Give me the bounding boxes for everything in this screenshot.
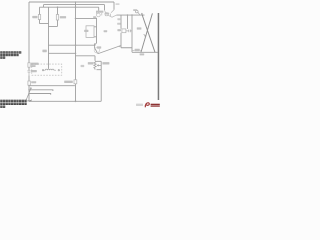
switch contacts <box>28 85 30 94</box>
switch arm arrow <box>26 88 32 102</box>
X top blob <box>141 13 142 14</box>
label VT1 VT2 text smudge <box>93 11 109 19</box>
wire branch y53.3 <box>49 52 76 54</box>
label RP left <box>88 62 94 64</box>
wire branch y46.6 <box>49 44 95 46</box>
wire switch stub c <box>29 94 51 95</box>
wire right step 2 <box>104 5 106 11</box>
leader line caption B <box>27 100 32 101</box>
resistor R1 <box>38 15 40 20</box>
wire y15 right <box>117 14 145 16</box>
caption text block B <box>0 100 26 108</box>
wire right step 3 <box>98 7 100 11</box>
capacitor comp2 on left rail <box>28 70 31 75</box>
label sw <box>42 50 46 53</box>
comp on x75 rail bottom <box>74 80 77 84</box>
label meter <box>133 9 137 11</box>
label near X bottom <box>135 49 140 51</box>
diode comp1 on left rail <box>28 63 30 67</box>
label C4 <box>84 30 107 33</box>
logo gray smudge <box>136 104 143 106</box>
label near X crossing <box>137 27 142 29</box>
logo red mark <box>145 103 160 108</box>
wire bus3 <box>40 6 99 8</box>
capacitor C7 ticks <box>126 30 132 33</box>
wire pot top link <box>94 56 96 61</box>
resistor R2 <box>56 15 58 21</box>
wire x132 <box>121 15 132 52</box>
wire right step 1 <box>113 2 115 10</box>
wire x121 <box>120 15 122 48</box>
wire branch y18.4 <box>76 17 97 19</box>
label right of dashed box <box>81 65 85 67</box>
label VD <box>117 29 121 31</box>
meter symbol top right <box>136 10 139 13</box>
wire x101.2 down <box>100 61 102 101</box>
zener box VD at x121 <box>122 29 126 33</box>
capacitor box C4 <box>86 26 94 38</box>
label R2 <box>60 16 66 18</box>
wire x96.5 <box>96 18 98 43</box>
label comp2 <box>31 70 37 72</box>
wire bus1 top <box>29 1 114 3</box>
wire R1 branch <box>40 7 49 23</box>
wire right rail dark <box>158 13 160 100</box>
wire y52.3 bottom right <box>132 51 158 53</box>
transistor big X VT4 <box>141 13 155 52</box>
arrowhead diagonal <box>119 46 121 48</box>
labels beside x121 <box>117 18 120 25</box>
potentiometer RP <box>94 61 101 70</box>
wire x48.5 rail <box>48 7 50 68</box>
label comp1 <box>31 63 39 67</box>
label above bus1 <box>116 3 120 5</box>
wire box stubs <box>94 27 97 37</box>
label RP right <box>102 62 109 64</box>
label under X leg <box>140 53 145 55</box>
label R1 <box>32 16 37 18</box>
wire switch stub a <box>29 85 75 87</box>
comp on left rail y81 <box>28 81 30 85</box>
emitter arrow mark <box>144 34 146 36</box>
wire left rail <box>28 2 30 101</box>
wire x75.5 rail <box>75 2 77 101</box>
transistor VT3 <box>95 43 98 54</box>
junction dots <box>57 1 133 102</box>
wire bus2 <box>44 5 105 8</box>
wire diagonal collector run <box>98 46 121 54</box>
label VT3 <box>97 46 101 48</box>
wire R2 branch <box>49 7 58 26</box>
wire x127.5 <box>127 15 129 29</box>
wire switch stub b <box>29 90 53 91</box>
caption text block A <box>0 51 21 59</box>
wire link x132 to X leg <box>132 50 141 52</box>
transistor VT1 VT2 cluster <box>97 10 117 17</box>
label comp x75 <box>64 81 73 83</box>
dashed box transformer <box>32 64 62 75</box>
wire bottom bus <box>29 100 101 102</box>
wire pot bracket <box>97 61 102 69</box>
wire branch y55.8 <box>76 55 96 57</box>
coil inside dashed box <box>42 64 59 71</box>
